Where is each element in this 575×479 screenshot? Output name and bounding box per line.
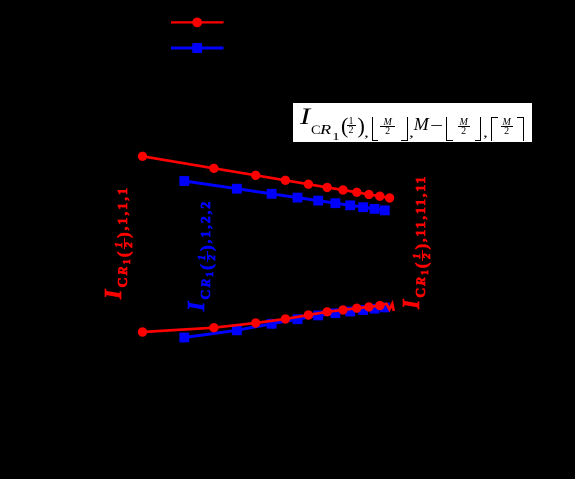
- legend red line sample: [171, 21, 224, 23]
- top red curve, M=2..22 even: [143, 156, 390, 198]
- bottom red circle markers: [138, 301, 385, 337]
- boxed formula top right: [292, 102, 533, 143]
- bottom red curve, M=2..22 even: [143, 304, 394, 332]
- rotated blue label middle: I_CR1(1/2),1,2,2: [185, 200, 217, 311]
- rotated red label right: I_CR1(1/2),11,11,11: [400, 175, 432, 309]
- top red circle markers: [138, 152, 395, 203]
- bottom blue curve, M=3..21 odd: [184, 307, 384, 337]
- legend red circle marker: [192, 18, 202, 28]
- legend blue square marker: [192, 43, 202, 53]
- legend blue line sample: [171, 47, 224, 50]
- top blue curve, M=3..21 odd: [184, 181, 384, 210]
- bottom blue square markers: [179, 303, 389, 343]
- top blue square markers: [179, 176, 389, 215]
- rotated red label left: I_CR1(1/2),1,1,1: [102, 186, 134, 299]
